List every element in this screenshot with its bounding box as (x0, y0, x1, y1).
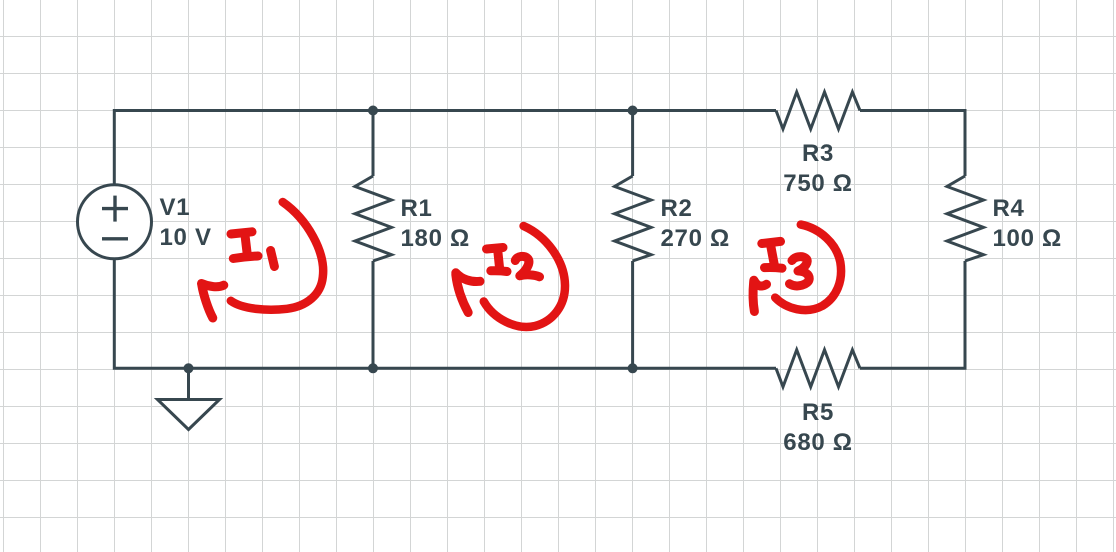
wire bottom from R5 to bottom-left corner up to V1 (114, 259, 776, 368)
node bottom of R1 (368, 363, 378, 373)
resistor R4 (947, 176, 984, 261)
node top of R1 (368, 106, 378, 116)
label V1 value (160, 193, 212, 253)
label R2 value (661, 194, 730, 254)
mesh current I3 letter I (762, 241, 781, 243)
resistor R2 (615, 176, 652, 261)
mesh current I1 arrowhead (202, 284, 224, 287)
node bottom of R2 (628, 363, 638, 373)
mesh current I2 arrow arc (484, 226, 565, 327)
mesh current I2 subscript 2 (515, 256, 539, 276)
wire right from R4 to bottom-right corner (860, 261, 965, 368)
wire top from V1 corner to R3 (114, 111, 776, 185)
mesh current I2 arrowhead (456, 273, 480, 282)
mesh current I1 letter I (231, 232, 252, 234)
node top of R2 (628, 106, 638, 116)
wire R2 branch bottom (631, 261, 634, 368)
label R3 value (738, 139, 898, 199)
label R5 value (738, 398, 898, 458)
mesh current I1 subscript 1 (271, 251, 275, 267)
mesh current I3 arrow arc (775, 225, 841, 310)
label R1 value (401, 194, 470, 254)
voltage source V1 (78, 185, 152, 259)
mesh current I2 letter I (487, 248, 504, 250)
node ground (184, 363, 194, 373)
resistor R1 (355, 176, 392, 261)
resistor R5 (776, 350, 860, 387)
wire R1 branch top (372, 111, 375, 177)
wire R1 branch bottom (372, 261, 375, 368)
label R4 value (993, 194, 1062, 254)
mesh current I3 arrowhead (754, 280, 767, 286)
wire R2 branch top (631, 111, 634, 177)
mesh current I3 subscript 3 (790, 257, 810, 286)
resistor R3 (776, 92, 860, 129)
mesh current I1 arrow arc (231, 202, 323, 310)
ground (187, 368, 190, 399)
wire top from R3 to top-right corner down to R4 (860, 111, 965, 177)
